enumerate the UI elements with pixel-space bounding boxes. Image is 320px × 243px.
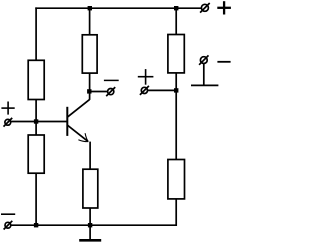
terminal bottom left circle [4,221,13,230]
resistor R6 emitter [83,169,98,208]
wire base [11,121,67,123]
label minus output [104,79,119,81]
ground bottom [79,225,101,240]
terminal input circle [4,118,13,127]
wire R6 to bottom bus [89,208,91,225]
node top middle junction [88,6,92,10]
wire R3 to top bus [89,8,91,35]
wire R2 to bottom bus [35,173,37,225]
ground right [191,64,218,86]
node bottom middle junction [88,223,92,227]
wire collector vertical [89,73,91,100]
label minus bottom left [1,213,15,215]
terminal mid circle [140,86,149,95]
node base junction [34,119,38,123]
resistor R1 [28,60,44,99]
transistor Q1 [67,100,89,142]
label plus mid [138,69,154,85]
resistor R4 [168,35,184,73]
wire R5 to bottom bus [175,199,177,226]
wire emitter vertical [89,142,91,170]
wire R1 to base node [35,100,37,136]
wire top bus to R4 [175,8,177,34]
terminal output circle [106,87,115,96]
label plus top right [217,1,231,14]
wire top bus [35,7,201,9]
node collector junction [87,89,91,93]
node left bottom junction [34,223,38,227]
resistor R5 [168,160,185,199]
node right middle junction [174,88,178,92]
wire R4 to R5 [175,73,177,160]
resistor R2 [28,135,44,173]
node top right junction [174,6,178,10]
resistor R3 [82,35,97,73]
label plus input [1,102,14,115]
wire mid terminal to right column [148,89,176,91]
wire output [90,91,108,93]
wire left vertical upper [35,7,37,60]
wire bottom bus [11,224,176,226]
terminal top right circle [200,3,210,13]
label minus right [217,61,230,63]
terminal right circle [199,55,208,64]
